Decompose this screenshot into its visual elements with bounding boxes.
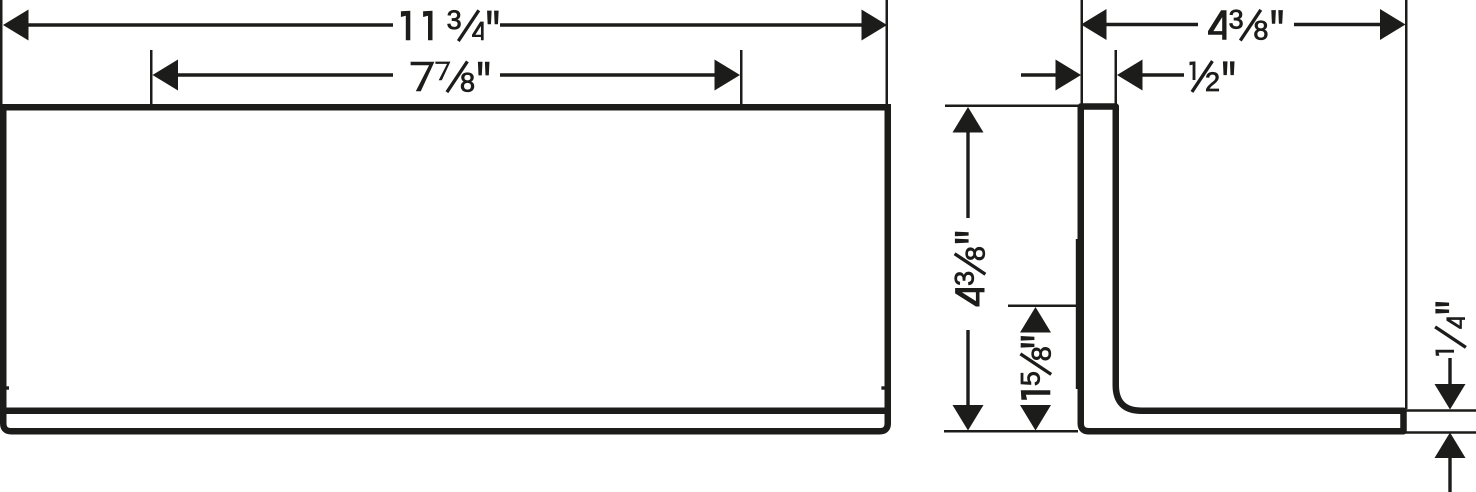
front view shelf bottom inner line [7, 408, 885, 415]
svg-text:8: 8 [1253, 16, 1268, 46]
svg-text:2: 2 [1205, 67, 1220, 97]
dim 7-7/8 left arrow [153, 60, 179, 91]
dim 1-5/8 top extension line [1008, 305, 1078, 308]
dim 1/2 right arrow (points left) [1117, 60, 1143, 91]
dim top 4-3/8 left extension line [1081, 0, 1084, 104]
dim 7-7/8 right arrow [715, 60, 741, 91]
svg-text:3: 3 [1229, 5, 1244, 35]
dim 11-3/4 left arrow [3, 10, 29, 41]
svg-text:3: 3 [950, 271, 980, 286]
front view shelf outline [3, 104, 888, 431]
dim label 1-5/8 inch (rotated) [1015, 336, 1056, 400]
svg-text:8: 8 [961, 246, 991, 261]
dim 1/2 right extension line [1115, 50, 1118, 104]
dim left 4-3/8 down arrow [953, 405, 984, 431]
dim 1/4 bottom extension line [1404, 431, 1476, 434]
dim label 7-7/8 inch [411, 62, 435, 92]
dim label 1/4 inch (rotated) [1435, 302, 1466, 356]
dim 1-5/8 down arrow [1020, 405, 1051, 431]
dim 1/4 down arrow [1435, 384, 1466, 410]
dim 7-7/8 line left segment [175, 73, 393, 76]
dim 1/4 top extension line [1404, 409, 1476, 412]
dim top 4-3/8 right arrow [1380, 9, 1406, 40]
dim label 11-3/4 inch [401, 11, 410, 41]
side view L-profile outline [1081, 107, 1404, 432]
svg-text:3: 3 [447, 5, 462, 35]
dim 1/4 up arrow [1435, 433, 1466, 459]
dim left 4-3/8 bottom extension line [944, 430, 1078, 433]
dim label 1/2 inch [1190, 61, 1196, 80]
dim 7-7/8 line right segment [500, 73, 718, 76]
dim 11-3/4 left extension line [0, 0, 3, 104]
dim 1/2 right tail line [1141, 73, 1185, 76]
dim left 4-3/8 up arrow [953, 107, 984, 133]
svg-text:5: 5 [1015, 371, 1045, 386]
dim 1/4 upper tail line [1448, 358, 1451, 386]
dim 1/4 lower tail line [1448, 456, 1451, 492]
dim left 4-3/8 line lower segment [966, 330, 969, 407]
dim 11-3/4 right extension line [886, 0, 889, 104]
dim 11-3/4 line left segment [26, 23, 393, 26]
svg-text:8: 8 [460, 67, 475, 97]
front view right weld mark [881, 386, 885, 389]
dim top 4-3/8 line left segment [1104, 23, 1198, 26]
dim 1/2 left arrow (points right) [1056, 60, 1082, 91]
dim left 4-3/8 top extension line [945, 105, 1078, 108]
dim top 4-3/8 line right segment [1294, 23, 1382, 26]
dim left 4-3/8 line upper segment [966, 130, 969, 218]
front view top edge [0, 104, 891, 111]
dim 11-3/4 right arrow [862, 10, 888, 41]
svg-text:8: 8 [1026, 346, 1056, 361]
dim 11-3/4 line right segment [500, 23, 864, 26]
dim 7-7/8 right extension line [740, 50, 743, 104]
dim 7-7/8 left extension line [150, 50, 153, 104]
dim top 4-3/8 right extension line [1405, 0, 1408, 409]
side view mounting plate edge [1076, 239, 1078, 389]
dim 1/2 left tail line [1021, 73, 1057, 76]
front view left weld mark [5, 386, 9, 389]
dim top 4-3/8 left arrow [1081, 9, 1107, 40]
dim label left 4-3/8 inch (rotated) [950, 232, 991, 307]
dim 1-5/8 up arrow [1020, 307, 1051, 333]
dim label top 4-3/8 inch [1208, 10, 1227, 39]
